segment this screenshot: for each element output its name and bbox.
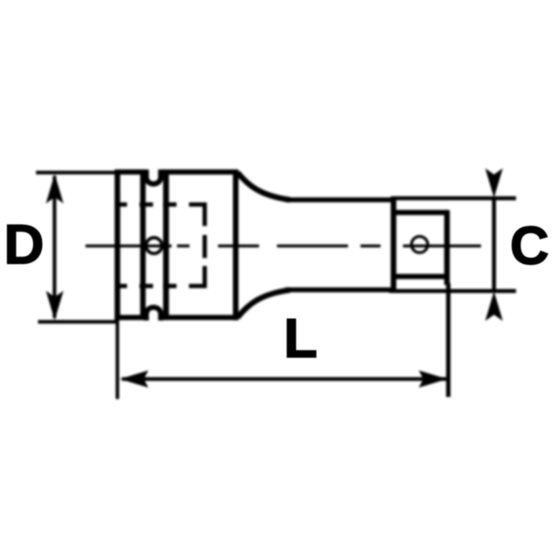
L dimension line — [122, 377, 446, 381]
D dimension line — [53, 176, 57, 318]
ring line 1 — [140, 170, 146, 320]
O-ring groove top — [146, 170, 160, 184]
L arrowhead left — [120, 370, 149, 387]
socket bottom edge (gap at groove) — [115, 315, 146, 320]
collar bottom edge + C extension line — [389, 289, 516, 293]
square drive top edge — [392, 210, 449, 215]
center line — [86, 244, 482, 247]
square drive bottom edge — [392, 274, 449, 279]
shaft bottom edge — [285, 287, 392, 292]
D arrowhead up — [46, 174, 64, 204]
svg-text:D: D — [4, 213, 44, 276]
transition curve top — [238, 173, 290, 200]
C arrowhead down (top) — [485, 168, 503, 198]
socket right face — [233, 170, 239, 320]
C dimension line — [492, 199, 496, 291]
ring line 2 — [163, 170, 169, 320]
L left extension line — [116, 318, 120, 399]
L arrowhead right — [419, 370, 448, 387]
pin hole — [146, 238, 162, 254]
transition curve bottom — [238, 290, 290, 318]
hidden square bore bottom (dashed) — [119, 266, 205, 286]
D bottom extension line — [38, 320, 119, 324]
svg-text:L: L — [284, 307, 318, 369]
O-ring groove bottom — [146, 307, 160, 320]
D top extension line — [36, 171, 119, 175]
socket body left face — [115, 170, 121, 320]
socket top edge (gap at groove) — [115, 169, 146, 174]
D arrowhead down — [46, 291, 64, 321]
hidden square bore right edge (dashed) — [203, 235, 207, 258]
hidden square bore top (dashed) — [119, 205, 205, 227]
square drive right edge — [444, 210, 450, 285]
C arrowhead up (bottom) — [485, 291, 503, 321]
collar top edge + C extension line — [391, 196, 516, 200]
shaft top edge — [285, 197, 396, 202]
collar step vertical — [391, 197, 397, 294]
detent hole — [412, 236, 428, 252]
L right extension line — [446, 283, 450, 397]
svg-text:C: C — [510, 216, 549, 276]
